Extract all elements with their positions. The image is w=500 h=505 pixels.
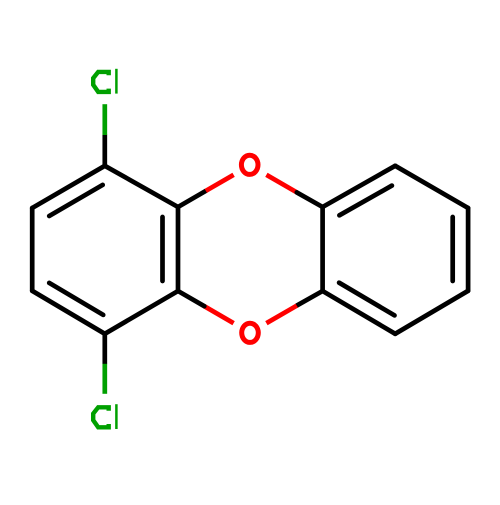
bond C8-C7 (right ring right edge) — [466, 208, 471, 291]
bond C3-C4 (left ring bottom-left edge) — [32, 291, 105, 334]
bond C4a=C10a inner double line — [160, 217, 165, 281]
bond C1-Cl1 (green half near Cl) — [102, 104, 107, 135]
bond O10-C9a (red half near O) — [266, 175, 296, 193]
bond C6=C5a inner double line — [339, 283, 394, 316]
bond C6-C5a (right ring bottom-left edge) — [323, 291, 396, 334]
atom label Cl1 (top chlorine): letter C — [93, 72, 109, 92]
bond C10a-C1 — [105, 166, 178, 207]
atom label Cl2 (bottom chlorine): letter l — [115, 404, 118, 429]
bond C4-C4a — [105, 291, 178, 334]
bond C8=C7 inner double line — [450, 217, 455, 281]
bond C10a-O10 (black half) — [178, 191, 206, 207]
bond O10-C9a (black half) — [297, 192, 323, 207]
bond C9a-C9 (right ring top-left edge) — [323, 166, 396, 207]
bond C4-Cl2 (green half near Cl) — [102, 364, 107, 394]
bond C3=C4 inner double line — [49, 283, 103, 315]
bond C4-Cl2 (black half) — [102, 334, 107, 364]
atom label O10 (top oxygen) — [241, 155, 258, 174]
bond C1-Cl1 (black half) — [102, 135, 107, 166]
atom label O5 (bottom oxygen) — [242, 323, 259, 342]
bond O5-C4a (red half near O) — [204, 306, 233, 323]
bond C5a-O5 (black half) — [297, 291, 323, 306]
bond C7-C6 (right ring bottom-right edge) — [395, 291, 468, 334]
bond C5a-O5 (red half near O) — [266, 306, 296, 324]
atom label Cl2 (bottom chlorine): letter C — [93, 407, 109, 427]
bond C1-C2 (left ring top-left edge) — [32, 166, 105, 208]
bond C9a-C5a (fused bond, central/right rings) — [320, 207, 325, 291]
bond C9-C8 (right ring top-right edge) — [395, 166, 468, 208]
bond C4a-C10a (fused bond, left/central rings) — [176, 207, 181, 291]
bond O5-C4a (black half) — [178, 291, 204, 306]
bond C10a-O10 (red half near O) — [206, 175, 234, 191]
atom label Cl1 (top chlorine): letter l — [115, 69, 118, 94]
bond C9a=C9 inner double line — [339, 186, 392, 216]
bond C1=C2 inner double line — [49, 185, 102, 216]
bond C2-C3 (left ring left edge) — [30, 208, 35, 291]
